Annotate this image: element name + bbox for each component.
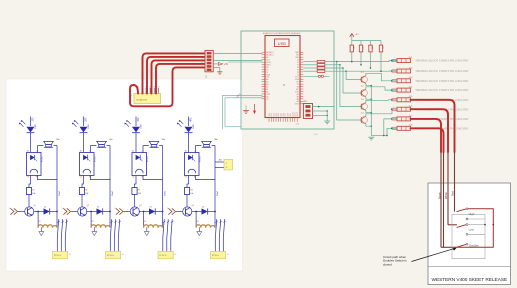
inner contact frame xyxy=(452,215,485,259)
net label 1F2 xyxy=(33,117,35,122)
ground at J5 xyxy=(213,67,222,74)
svg-text:Q3: Q3 xyxy=(139,205,142,207)
FTDI header JP1 (yellow) xyxy=(130,94,161,104)
svg-text:LED: LED xyxy=(88,124,90,129)
svg-text:A1: A1 xyxy=(80,150,82,153)
junction rail-diode block 3 xyxy=(162,211,164,213)
sounder SP4 and wire xyxy=(196,139,218,152)
net MCU to R6 xyxy=(303,64,317,66)
net MCU to R8 xyxy=(303,70,317,72)
bus net 3 xyxy=(325,67,344,69)
harness wire 5 (loop) xyxy=(130,67,205,106)
MCU version label xyxy=(296,124,300,126)
JP1 pin stubs xyxy=(138,85,161,93)
LED4 xyxy=(177,120,195,133)
wire opto2 collector xyxy=(91,176,111,180)
optocoupler OK2 xyxy=(80,150,97,179)
svg-text:C2: C2 xyxy=(132,177,134,179)
diode D2 xyxy=(97,206,111,214)
wire right rail block 4 xyxy=(215,152,219,227)
net terminal row8 to ground xyxy=(386,128,397,137)
svg-text:30n: 30n xyxy=(109,139,112,141)
svg-text:WESTERN V400 SKEET RELEASE: WESTERN V400 SKEET RELEASE xyxy=(432,277,508,283)
sounder SP2 and wire xyxy=(91,139,113,152)
input connector pins block 4 xyxy=(167,208,176,214)
wire LED3 cathode to opto xyxy=(135,133,137,153)
svg-text:Q2: Q2 xyxy=(87,205,90,207)
svg-text:10k: 10k xyxy=(85,193,88,195)
svg-text:R2: R2 xyxy=(85,190,87,192)
resistor R1 xyxy=(26,176,35,207)
wire LED2 cathode to opto xyxy=(83,133,85,153)
wire opto4 collector xyxy=(196,176,216,180)
sounder SP3 and wire xyxy=(143,139,165,152)
svg-text:High: High xyxy=(469,212,475,216)
ground below JP4 xyxy=(313,121,330,136)
contact NC2 xyxy=(466,233,485,235)
diode D4 xyxy=(202,206,216,214)
svg-text:USB: USB xyxy=(278,41,286,46)
net J5 pin1 to MCU xyxy=(213,52,262,54)
side pad wires block 4 xyxy=(215,159,224,167)
net from MCU left pins down xyxy=(223,95,263,129)
resistor R11 xyxy=(369,41,374,69)
wire LED3 anode xyxy=(135,117,137,127)
svg-text:R3: R3 xyxy=(138,190,140,192)
svg-text:30n: 30n xyxy=(214,139,217,141)
relay coil K3 xyxy=(143,211,163,228)
transistor Q7 xyxy=(359,99,368,110)
svg-text:30n: 30n xyxy=(162,139,165,141)
MCU pins xyxy=(262,52,304,122)
ground symbol left of MCU xyxy=(243,106,249,114)
svg-text:JP-10-S: JP-10-S xyxy=(201,58,203,66)
resistor R8 xyxy=(317,70,325,72)
wire LED1 anode xyxy=(30,117,32,127)
svg-text:10k: 10k xyxy=(190,193,193,195)
svg-text:1P 5V G: 1P 5V G xyxy=(212,255,220,257)
bus net 2 xyxy=(325,64,341,66)
svg-text:K4: K4 xyxy=(196,221,198,223)
svg-text:10k: 10k xyxy=(372,46,374,49)
top power bus xyxy=(352,40,381,42)
net Q8 collector xyxy=(366,108,397,116)
svg-text:2-4: 2-4 xyxy=(361,113,364,115)
svg-text:30C: 30C xyxy=(219,159,223,161)
pad label block 1 xyxy=(53,251,72,258)
svg-text:PC817: PC817 xyxy=(147,155,149,162)
svg-text:K2: K2 xyxy=(91,221,93,223)
MCU pin names xyxy=(266,51,299,116)
terminal block J4 xyxy=(392,87,469,93)
net stub xyxy=(228,61,262,63)
MCU USB box xyxy=(275,39,290,47)
input connector pins block 3 xyxy=(115,208,124,214)
net MCU to R5 xyxy=(303,61,317,63)
resistor R10 xyxy=(359,41,364,66)
svg-text:1: 1 xyxy=(167,208,168,210)
svg-text:K3: K3 xyxy=(144,221,146,223)
terminal block J7 xyxy=(392,115,469,121)
resistor R7 xyxy=(317,67,325,69)
net MCU to R7 xyxy=(303,67,317,69)
svg-text:C2: C2 xyxy=(27,177,29,179)
terminal block J1 xyxy=(392,57,469,63)
switch Doubles xyxy=(457,243,480,247)
wire opto3 collector xyxy=(143,176,163,180)
svg-text:J1-6: J1-6 xyxy=(409,106,413,108)
jumper SJ1 xyxy=(303,75,329,77)
junction rail-diode block 2 xyxy=(109,211,111,213)
wire LED4 cathode to opto xyxy=(188,133,190,153)
svg-text:+5V: +5V xyxy=(224,64,229,66)
svg-text:J1-7: J1-7 xyxy=(409,115,413,117)
svg-text:1P 5V G: 1P 5V G xyxy=(159,255,167,257)
svg-text:J1-1: J1-1 xyxy=(409,57,413,59)
base net Q4 xyxy=(337,62,359,120)
svg-text:C2: C2 xyxy=(80,177,82,179)
contact NC1 xyxy=(466,218,485,220)
wire LED1 cathode to opto xyxy=(30,133,32,153)
optocoupler OK4 xyxy=(185,150,202,179)
svg-text:LED: LED xyxy=(193,124,195,129)
wire Q1 collector xyxy=(33,211,43,213)
net label 4F2 xyxy=(191,117,193,122)
transistor Q8 xyxy=(359,113,368,124)
transistor Q5 xyxy=(359,72,368,83)
pad label block 4 xyxy=(211,251,230,258)
bus net 1 xyxy=(325,60,397,63)
wire Q3 collector xyxy=(139,211,149,213)
optocoupler OK1 xyxy=(27,150,44,179)
ground block 2 xyxy=(92,227,97,235)
ground block 1 xyxy=(39,227,44,235)
svg-text:TERMINAL BLOCK 3.5MM 5 PIN LON: TERMINAL BLOCK 3.5MM 5 PIN LONG PAD xyxy=(415,59,468,63)
svg-text:D3: D3 xyxy=(149,206,151,208)
terminal block J8 xyxy=(392,125,469,131)
junction rail-diode block 4 xyxy=(214,211,216,213)
svg-text:GND: GND xyxy=(295,104,300,106)
svg-text:A1: A1 xyxy=(185,150,187,153)
power arrow down xyxy=(253,104,256,114)
svg-text:TERMINAL BLOCK 3.5MM 5 PIN LON: TERMINAL BLOCK 3.5MM 5 PIN LONG PAD xyxy=(415,88,468,92)
svg-text:D1: D1 xyxy=(44,206,46,208)
wire right rail block 2 xyxy=(110,152,114,227)
svg-text:10k: 10k xyxy=(138,193,141,195)
pad label block 3 xyxy=(158,251,177,258)
wires to pad block 4 xyxy=(215,220,226,252)
MCU center mark xyxy=(283,84,284,85)
sounder SP1 and wire xyxy=(38,139,60,152)
optocoupler OK3 xyxy=(132,150,149,179)
svg-text:30nC: 30nC xyxy=(217,190,219,196)
label Red xyxy=(451,191,455,196)
pad label block 2 xyxy=(106,251,125,258)
net label 3F2 xyxy=(138,117,140,122)
svg-text:PC817: PC817 xyxy=(95,155,97,162)
harness wire 2 xyxy=(147,57,205,94)
wire opto1 collector xyxy=(38,176,58,180)
MCU title xyxy=(263,32,301,35)
input connector pins block 2 xyxy=(62,208,71,214)
label Black xyxy=(437,192,441,199)
svg-text:closed: closed xyxy=(383,262,392,266)
svg-text:PC817: PC817 xyxy=(200,155,202,162)
svg-text:J1-4: J1-4 xyxy=(409,87,413,89)
terminal block J2 xyxy=(392,67,469,73)
svg-text:30nC: 30nC xyxy=(59,190,61,196)
switch High xyxy=(457,208,475,216)
ground block 4 xyxy=(197,227,202,235)
svg-text:PC817: PC817 xyxy=(42,155,44,162)
release wire row6 (White) xyxy=(411,109,449,152)
LED2 xyxy=(72,120,90,133)
release box outline xyxy=(428,183,511,285)
resistor R12 xyxy=(379,41,384,72)
wire right rail block 1 xyxy=(57,152,61,227)
title WESTERN V400 SKEET RELEASE xyxy=(432,277,508,283)
transistor Q2 xyxy=(71,205,89,216)
release wire row5 (Red) xyxy=(411,100,455,152)
svg-text:1: 1 xyxy=(9,208,10,210)
svg-text:R1: R1 xyxy=(32,190,34,192)
svg-text:D4: D4 xyxy=(202,206,204,208)
svg-text:A1: A1 xyxy=(27,150,29,153)
diode D1 xyxy=(44,206,58,214)
thin wire Black xyxy=(441,152,457,247)
+5V power arrow top xyxy=(350,33,359,40)
release wire row8 (Black2) xyxy=(411,128,444,152)
wire right rail block 3 xyxy=(163,152,167,227)
annotation text xyxy=(383,255,407,267)
terminal block J3 xyxy=(392,77,469,83)
svg-text:J1-5: J1-5 xyxy=(409,96,413,98)
svg-text:R4: R4 xyxy=(190,190,192,192)
base net Q2 xyxy=(343,68,359,93)
svg-text:IO12: IO12 xyxy=(297,112,299,116)
wire LED4 anode xyxy=(188,117,190,127)
annotation arrow xyxy=(412,248,457,262)
wires inside box xyxy=(441,183,457,247)
resistor R2 xyxy=(79,176,88,207)
svg-text:1P 5V G: 1P 5V G xyxy=(54,255,62,257)
svg-text:2-1: 2-1 xyxy=(361,72,364,74)
terminal block J6 xyxy=(392,106,469,112)
+3V3 label xyxy=(236,93,242,99)
MCU U1 outline xyxy=(265,36,300,118)
svg-text:B O A U D R: B O A U D R xyxy=(137,99,148,102)
transistor Q6 xyxy=(359,86,368,97)
svg-text:10k: 10k xyxy=(353,46,355,49)
resistor R9 xyxy=(350,41,355,63)
svg-text:10k: 10k xyxy=(32,193,35,195)
resistor R3 xyxy=(132,176,141,207)
relay coil K1 xyxy=(37,211,57,228)
wires to pad block 2 xyxy=(110,220,121,252)
svg-text:J1-8: J1-8 xyxy=(409,125,413,127)
base net Q3 xyxy=(340,65,359,107)
svg-text:+5V: +5V xyxy=(355,34,359,36)
release wire row7 (Black) xyxy=(411,119,442,152)
net Q7 collector xyxy=(366,99,397,103)
svg-text:10k: 10k xyxy=(383,46,385,49)
terminal block J5 xyxy=(392,96,469,102)
net terminal row7 to ground xyxy=(383,118,397,136)
wires to pad block 3 xyxy=(163,220,174,252)
ground bus bottom xyxy=(368,136,387,141)
svg-text:LED: LED xyxy=(141,124,143,129)
svg-text:1: 1 xyxy=(62,208,63,210)
wire LED2 anode xyxy=(83,117,85,127)
net J5 pin3 to MCU xyxy=(213,59,262,61)
separator line xyxy=(428,266,511,268)
net label 2F2 xyxy=(86,117,88,122)
wires to pad block 1 xyxy=(57,220,68,252)
svg-text:Q1: Q1 xyxy=(34,205,37,207)
transistor Q4 xyxy=(176,205,194,216)
svg-text:D2: D2 xyxy=(97,206,99,208)
LED1 xyxy=(19,120,37,133)
nets from JP4 xyxy=(313,106,335,121)
svg-text:K1: K1 xyxy=(38,221,40,223)
svg-text:1P 5V G: 1P 5V G xyxy=(107,255,115,257)
thin wire Black2 xyxy=(443,152,445,247)
label White xyxy=(444,192,448,199)
connector J5 xyxy=(201,50,213,78)
junction rail-diode block 1 xyxy=(56,211,58,213)
diode D3 xyxy=(149,206,163,214)
harness wire 3 xyxy=(152,60,205,93)
svg-text:1: 1 xyxy=(115,208,116,210)
svg-text:2-3: 2-3 xyxy=(361,99,364,101)
svg-text:TERMINAL BLOCK 3.5MM 5 PIN LON: TERMINAL BLOCK 3.5MM 5 PIN LONG PAD xyxy=(415,79,468,83)
thin wire Red xyxy=(455,152,457,212)
ground block 3 xyxy=(144,227,149,235)
svg-text:30n: 30n xyxy=(56,139,59,141)
resistor R5 xyxy=(317,60,325,62)
svg-text:30nC: 30nC xyxy=(112,190,114,196)
white breadboard panel xyxy=(6,79,243,271)
wire Q4 collector xyxy=(191,211,201,213)
net Q5 collector xyxy=(366,73,397,81)
svg-text:LED: LED xyxy=(35,124,37,129)
bus net 4 xyxy=(325,70,397,72)
svg-text:Q4: Q4 xyxy=(192,205,195,207)
transistor Q1 xyxy=(18,205,36,216)
svg-text:A1: A1 xyxy=(132,150,134,153)
resistor R4 xyxy=(184,176,193,207)
side pad label block 4 xyxy=(224,159,233,170)
+5V arrow at J5 xyxy=(213,63,228,66)
svg-text:2-2: 2-2 xyxy=(361,86,364,88)
harness wire 1 xyxy=(143,53,205,93)
frame around MCU xyxy=(241,31,334,129)
transistor Q3 xyxy=(123,205,141,216)
svg-text:10k: 10k xyxy=(363,46,365,49)
svg-text:TERMINAL BLOCK 3.5MM 5 PIN LON: TERMINAL BLOCK 3.5MM 5 PIN LONG PAD xyxy=(415,69,468,73)
wire Q2 collector xyxy=(86,211,96,213)
red return path xyxy=(458,209,495,248)
svg-text:J1-2: J1-2 xyxy=(409,67,413,69)
relay coil K4 xyxy=(195,211,215,228)
thin wire White xyxy=(448,152,457,225)
svg-text:30nC: 30nC xyxy=(164,190,166,196)
input connector pins block 1 xyxy=(9,208,18,214)
harness wire 4 xyxy=(156,64,205,94)
LED3 xyxy=(124,120,142,133)
connector JP4 xyxy=(303,101,312,118)
resistor R6 xyxy=(317,64,325,66)
emitter rail xyxy=(366,84,372,136)
svg-text:J1-3: J1-3 xyxy=(409,77,413,79)
switch Low xyxy=(457,224,486,232)
relay coil K2 xyxy=(90,211,110,228)
base net Q1 xyxy=(346,71,359,79)
net Q6 collector xyxy=(366,87,397,91)
svg-text:C2: C2 xyxy=(185,177,187,179)
svg-text:ADAFRUIT HUZZAH32 ESP32 FEATHE: ADAFRUIT HUZZAH32 ESP32 FEATHER xyxy=(263,32,301,35)
